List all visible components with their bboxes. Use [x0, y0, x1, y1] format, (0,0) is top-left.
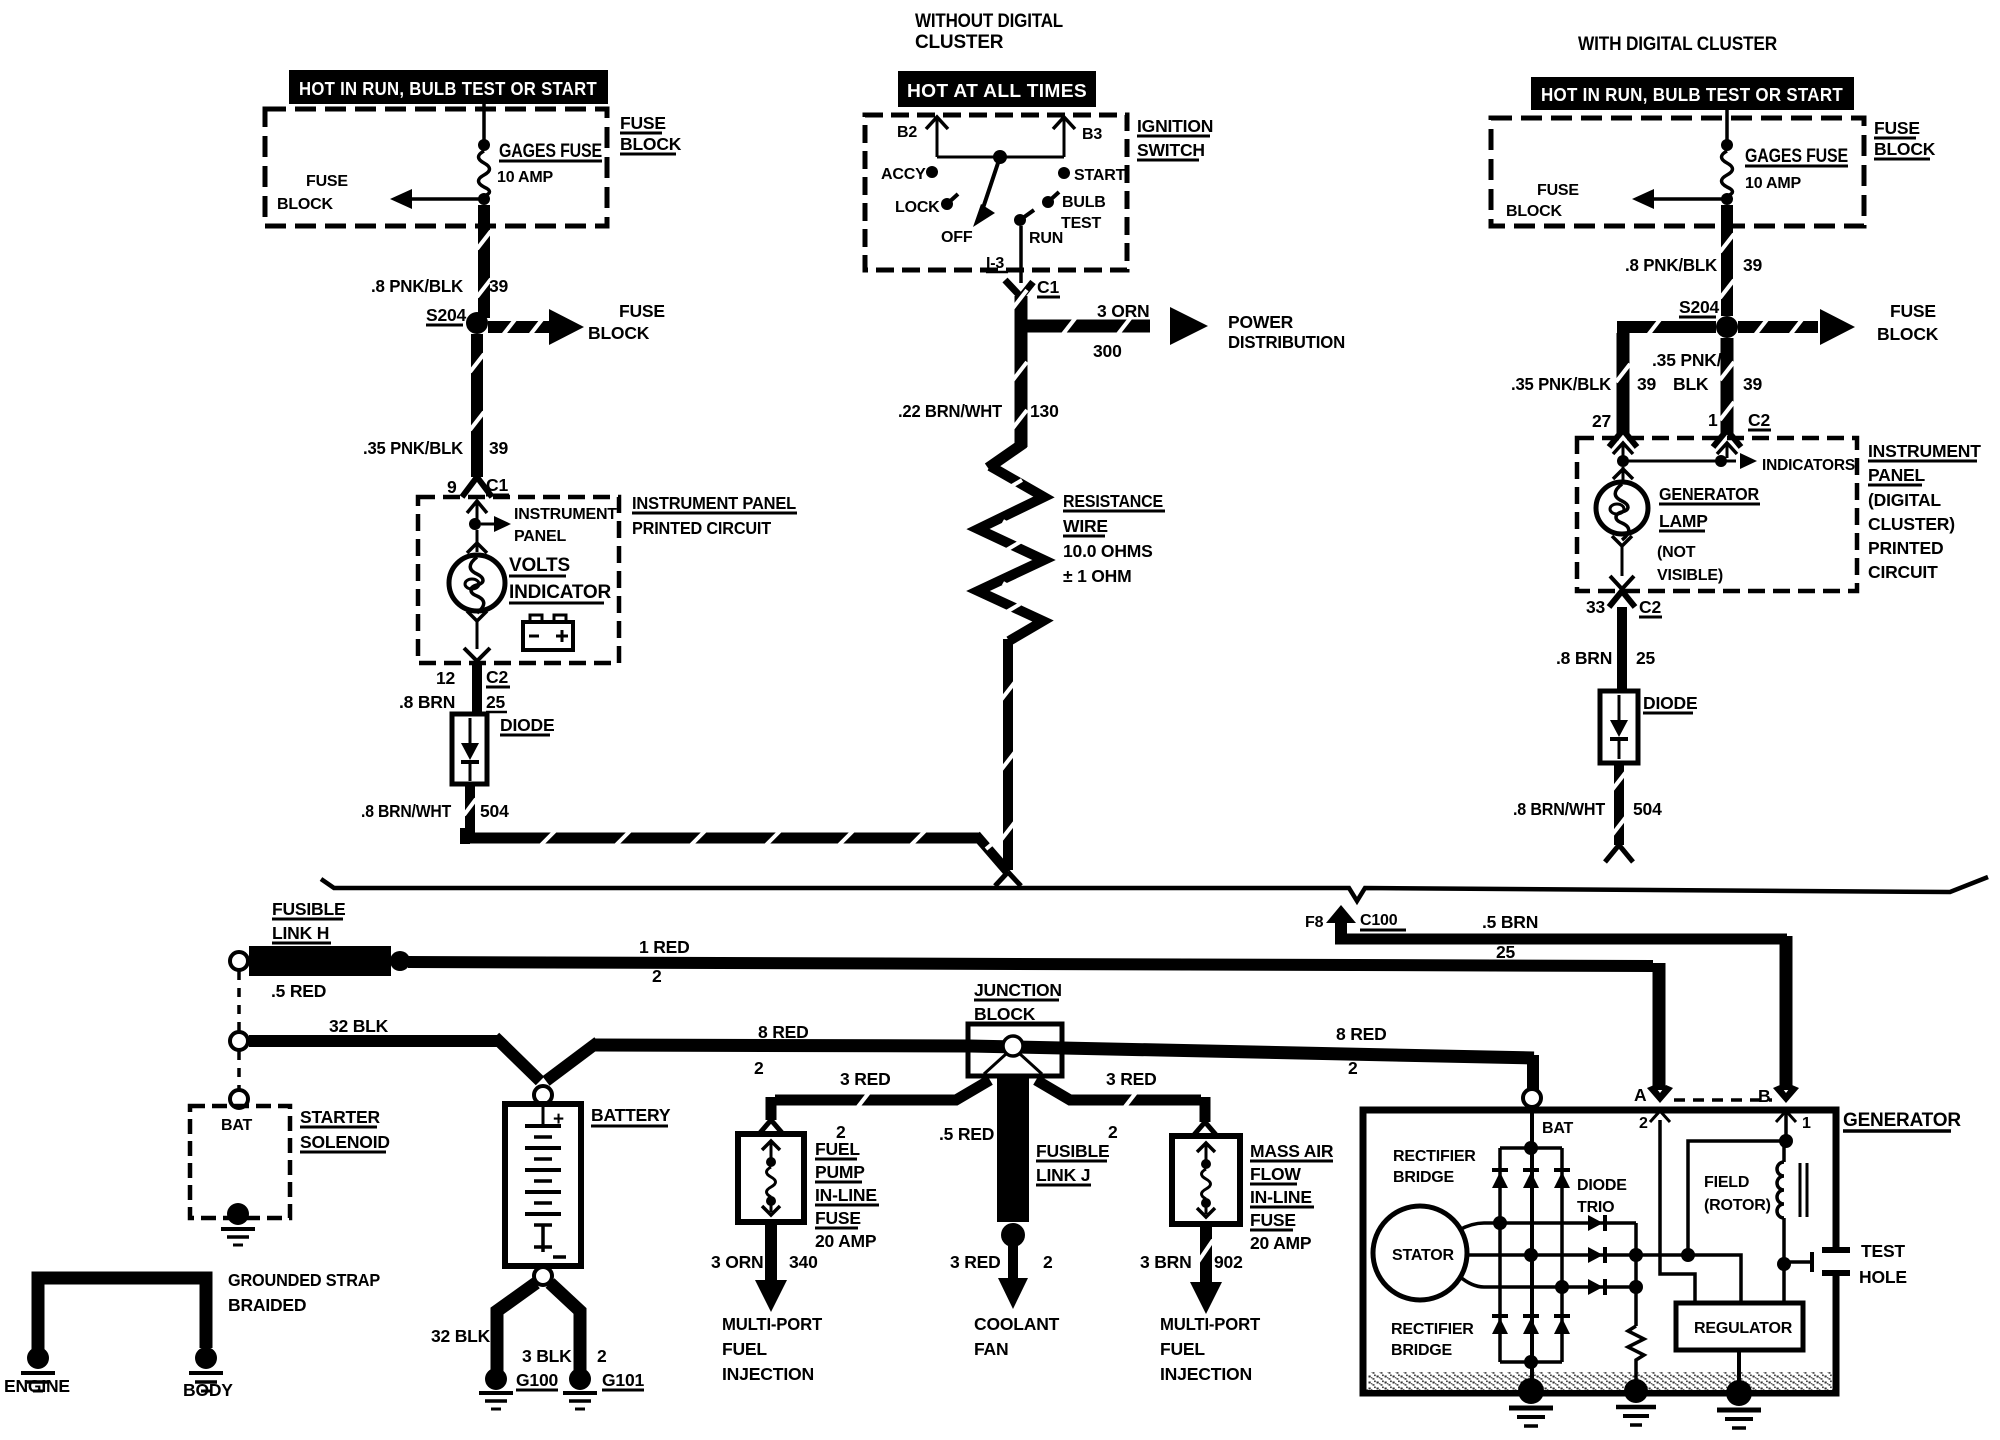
svg-text:BRIDGE: BRIDGE: [1393, 1169, 1455, 1186]
svg-text:C1: C1: [1037, 277, 1059, 297]
field (rotor) winding: [1777, 1145, 1784, 1260]
svg-text:LAMP: LAMP: [1659, 511, 1708, 531]
svg-text:BULB: BULB: [1062, 194, 1106, 211]
fuse block (left) dashed box: [265, 109, 607, 226]
svg-text:FIELD: FIELD: [1704, 1174, 1749, 1191]
svg-text:8 RED: 8 RED: [1336, 1024, 1387, 1044]
starter solenoid dashed box: [190, 1106, 290, 1218]
power label: HOT IN RUN, BULB TEST OR START (right): [1531, 77, 1854, 110]
svg-text:300: 300: [1093, 341, 1122, 361]
svg-text:INSTRUMENT: INSTRUMENT: [514, 506, 617, 523]
fuel pump fuse element: [762, 1141, 780, 1215]
label 3 RED 2 (coolant fan): [950, 1252, 1053, 1272]
wire RUN to C1: [1019, 226, 1023, 283]
svg-text:.8 BRN/WHT: .8 BRN/WHT: [1513, 799, 1605, 819]
wire into right fuse block: [1725, 110, 1729, 141]
label INSTRUMENT PANEL PRINTED CIRCUIT: [632, 493, 797, 538]
svg-text:INJECTION: INJECTION: [722, 1364, 814, 1384]
terminal B3 arrow: [1053, 117, 1102, 157]
svg-text:START: START: [1074, 167, 1126, 184]
label COOLANT FAN: [974, 1314, 1060, 1359]
label 3 ORN 340: [711, 1252, 818, 1272]
terminal ring fusible link H: [230, 952, 248, 970]
svg-text:3 RED: 3 RED: [950, 1252, 1001, 1272]
label 3 BRN 902: [1140, 1252, 1243, 1272]
svg-text:.5 RED: .5 RED: [271, 981, 326, 1001]
label RECTIFIER BRIDGE (bottom): [1391, 1321, 1474, 1359]
wire from header into fuse block: [482, 104, 486, 141]
svg-text:.8 PNK/BLK: .8 PNK/BLK: [371, 276, 464, 296]
svg-text:MULTI-PORT: MULTI-PORT: [1160, 1314, 1260, 1334]
svg-text:10.0 OHMS: 10.0 OHMS: [1063, 541, 1153, 561]
dashed lead to BAT stud: [237, 1051, 241, 1090]
svg-text:BLOCK: BLOCK: [1874, 139, 1936, 159]
svg-text:LINK J: LINK J: [1036, 1165, 1090, 1185]
label DIODE TRIO: [1577, 1177, 1627, 1216]
svg-text:39: 39: [489, 438, 509, 458]
strap dot body: [195, 1347, 217, 1369]
node dot trio/phase2: [1629, 1248, 1643, 1262]
contact START: [1058, 167, 1126, 184]
diode trio rail: [1634, 1223, 1638, 1326]
wire arrow to fuse block (from S204 left): [488, 309, 584, 345]
battery box: [505, 1104, 581, 1266]
svg-text:.22 BRN/WHT: .22 BRN/WHT: [898, 401, 1002, 421]
ground (BAT rail): [1509, 1408, 1553, 1426]
rectifier diode top-left: [1492, 1170, 1508, 1188]
wire .8 BRN 25 (right): [1617, 607, 1627, 691]
dashed lead to starter solenoid: [237, 971, 241, 1032]
node dot instrument panel feed: [469, 518, 481, 530]
dashed link A-B: [1674, 1098, 1772, 1102]
svg-text:HOT IN RUN, BULB TEST OR STAR: HOT IN RUN, BULB TEST OR START: [1541, 85, 1843, 105]
splice S204 (right): [1679, 297, 1738, 338]
label 1 RED 2: [639, 937, 690, 986]
svg-text:S204: S204: [1679, 297, 1720, 317]
label .35 PNK/ BLK 39: [1652, 350, 1763, 394]
switch common bar: [937, 156, 1064, 159]
label FUSE BLOCK (arrow target, right): [1877, 301, 1939, 344]
svg-text:OFF: OFF: [941, 229, 973, 246]
label DIODE (left): [500, 715, 554, 735]
svg-text:2: 2: [1348, 1058, 1358, 1078]
svg-text:39: 39: [1637, 374, 1657, 394]
svg-text:PANEL: PANEL: [514, 528, 566, 545]
ground dot (trio resistor): [1624, 1379, 1648, 1403]
svg-text:BODY: BODY: [183, 1380, 233, 1400]
svg-text:.35 PNK/: .35 PNK/: [1652, 350, 1722, 370]
svg-text:1 RED: 1 RED: [639, 937, 690, 957]
rectifier diode bottom-left: [1492, 1316, 1508, 1334]
diode (right): [1600, 691, 1638, 763]
label I-3: [986, 255, 1008, 272]
svg-text:25: 25: [486, 692, 506, 712]
svg-text:DIODE: DIODE: [1577, 1177, 1627, 1194]
label MULTI-PORT FUEL INJECTION (right): [1160, 1314, 1260, 1384]
svg-text:VOLTS: VOLTS: [509, 555, 570, 576]
gages fuse element (left): [479, 151, 490, 196]
splice S204 (left): [426, 305, 488, 334]
terminal B connector: [1758, 1085, 1811, 1132]
wire regulator to ground: [1737, 1350, 1741, 1385]
svg-text:INSTRUMENT: INSTRUMENT: [1868, 441, 1981, 461]
generator lamp: [1596, 467, 1648, 589]
svg-text:SOLENOID: SOLENOID: [300, 1132, 390, 1152]
svg-text:WITHOUT DIGITAL: WITHOUT DIGITAL: [915, 11, 1064, 32]
svg-text:S204: S204: [426, 305, 467, 325]
svg-text:FAN: FAN: [974, 1339, 1008, 1359]
ground (body): [189, 1373, 223, 1391]
starter solenoid ground dot: [227, 1203, 249, 1225]
node arrow into printed circuit (left): [467, 501, 487, 524]
label FUSE BLOCK (inside right fuse block): [1506, 182, 1579, 220]
diode trio diode 3: [1588, 1279, 1605, 1295]
svg-text:CLUSTER: CLUSTER: [915, 32, 1004, 53]
label OFF: [941, 229, 973, 246]
svg-text:B: B: [1758, 1086, 1770, 1106]
svg-text:FUEL: FUEL: [722, 1339, 767, 1359]
arrow to fuse block (inside, right): [1632, 189, 1727, 209]
generator box: [1363, 1110, 1836, 1393]
svg-text:JUNCTION: JUNCTION: [974, 980, 1062, 1000]
svg-text:3 ORN: 3 ORN: [711, 1252, 763, 1272]
diode (left): [452, 714, 487, 784]
svg-text:C2: C2: [1639, 597, 1661, 617]
svg-text:BRIDGE: BRIDGE: [1391, 1342, 1453, 1359]
svg-text:RECTIFIER: RECTIFIER: [1393, 1148, 1476, 1165]
wire resistance tail down: [1001, 639, 1015, 870]
svg-text:STARTER: STARTER: [300, 1107, 381, 1127]
svg-text:(DIGITAL: (DIGITAL: [1868, 490, 1941, 510]
wire below lamp with arrows: [464, 611, 490, 661]
indicators feed dots and arrow: [1617, 453, 1855, 474]
svg-text:FUEL: FUEL: [815, 1139, 860, 1159]
stator phase wire 3: [1459, 1276, 1636, 1287]
mass air flow in-line fuse box: [1172, 1136, 1240, 1224]
label WITH DIGITAL CLUSTER: [1578, 34, 1777, 55]
svg-text:BLOCK: BLOCK: [277, 196, 334, 213]
svg-text:(ROTOR): (ROTOR): [1704, 1197, 1771, 1214]
bus line (page link wire): [321, 877, 1988, 901]
contact ACCY: [881, 166, 938, 183]
ground (starter solenoid): [221, 1229, 255, 1245]
svg-text:32 BLK: 32 BLK: [329, 1016, 389, 1036]
svg-text:25: 25: [1636, 648, 1656, 668]
label GENERATOR LAMP (NOT VISIBLE): [1657, 484, 1760, 584]
wire 1 RED 2 to generator A: [408, 962, 1659, 1090]
svg-text:ENGINE: ENGINE: [4, 1376, 70, 1396]
svg-text:F8: F8: [1305, 914, 1324, 931]
svg-text:1: 1: [1708, 410, 1718, 430]
svg-text:BLOCK: BLOCK: [1506, 203, 1563, 220]
switch lever to OFF: [973, 157, 1000, 227]
wire 3 ORN 300 to power distribution: [1021, 307, 1208, 345]
ground G101: [563, 1393, 597, 1409]
label FUSIBLE LINK J: [1036, 1141, 1109, 1185]
wire 3 BLK 2 battery to G101: [550, 1283, 580, 1372]
label .8 BRN/WHT 504 (right): [1513, 799, 1662, 819]
wire 32 BLK battery to G100: [497, 1283, 536, 1372]
node dot above gages fuse: [478, 139, 490, 151]
node dot field bottom: [1777, 1257, 1791, 1271]
rectifier diode bottom-center: [1523, 1316, 1539, 1334]
svg-text:3 RED: 3 RED: [840, 1069, 891, 1089]
node dot phase3/right rail: [1555, 1280, 1569, 1294]
svg-text:39: 39: [489, 276, 509, 296]
node dot BAT top: [1524, 1141, 1538, 1155]
label FUSE BLOCK (inside left fuse block): [277, 173, 348, 213]
svg-text:8 RED: 8 RED: [758, 1022, 809, 1042]
svg-text:504: 504: [480, 801, 509, 821]
node dot field top: [1779, 1134, 1793, 1148]
connector fork to bus (right): [1605, 845, 1633, 862]
node dot BAT bottom: [1524, 1355, 1538, 1369]
wire field bottom to test hole contact: [1784, 1252, 1812, 1272]
svg-text:27: 27: [1592, 411, 1611, 431]
svg-text:3 BLK: 3 BLK: [522, 1346, 572, 1366]
junction block box: [968, 1024, 1062, 1076]
BAT rail: [1530, 1107, 1534, 1390]
wire .8 BRN/WHT 504 (right): [1612, 763, 1626, 845]
switch pivot node: [993, 150, 1007, 164]
svg-text:CLUSTER): CLUSTER): [1868, 514, 1955, 534]
resistance wire elbow: [988, 443, 1024, 468]
label JUNCTION BLOCK: [974, 980, 1062, 1024]
ground dot (regulator): [1726, 1380, 1752, 1406]
svg-text:FUSE: FUSE: [815, 1208, 861, 1228]
svg-text:.8 PNK/BLK: .8 PNK/BLK: [1625, 255, 1718, 275]
svg-text:.5 RED: .5 RED: [939, 1124, 994, 1144]
wire branch left from S204: [1616, 317, 1716, 434]
contact RUN: [1014, 210, 1063, 247]
terminal ring BAT stud: [230, 1090, 248, 1108]
svg-text:504: 504: [1633, 799, 1662, 819]
svg-text:GENERATOR: GENERATOR: [1843, 1110, 1961, 1131]
svg-text:DISTRIBUTION: DISTRIBUTION: [1228, 332, 1345, 352]
ground dot (BAT rail): [1518, 1378, 1544, 1404]
connector C1 pin 9 (left): [447, 475, 509, 497]
svg-text:FUSE: FUSE: [1890, 301, 1936, 321]
label 3 RED 2 (fuel pump): [836, 1069, 891, 1142]
fusible link H element: [249, 946, 391, 976]
label 3 RED 2 (mass air): [1106, 1069, 1157, 1142]
label IGNITION SWITCH: [1137, 116, 1213, 160]
wire .5 BRN 25 to generator B: [1335, 936, 1787, 1090]
svg-text:MASS AIR: MASS AIR: [1250, 1141, 1334, 1161]
fuse block (right) dashed box: [1491, 118, 1864, 226]
label 32 BLK (battery ground): [431, 1326, 491, 1346]
regulator box: [1676, 1303, 1803, 1350]
wire 3 RED 2 to mass air flow fuse: [1036, 1080, 1217, 1136]
label INSTRUMENT PANEL (internal): [514, 506, 617, 545]
svg-text:BLK: BLK: [1673, 374, 1709, 394]
wire 32 BLK to battery: [249, 1037, 540, 1081]
battery + terminal ring: [534, 1086, 552, 1104]
svg-text:GAGES FUSE: GAGES FUSE: [1745, 146, 1848, 167]
svg-text:FUSE: FUSE: [1537, 182, 1579, 199]
node dot phase1/left rail: [1493, 1216, 1507, 1230]
wire field bottom down to regulator: [1782, 1264, 1786, 1303]
label .35 PNK/BLK 39 (branch 27): [1511, 374, 1657, 394]
svg-text:3 RED: 3 RED: [1106, 1069, 1157, 1089]
wire 504 horizontal run to junction: [465, 828, 1008, 872]
svg-text:LINK H: LINK H: [272, 923, 329, 943]
svg-text:.8 BRN: .8 BRN: [399, 692, 455, 712]
svg-text:25: 25: [1496, 942, 1516, 962]
strap dot engine: [27, 1347, 49, 1369]
label 3 BLK 2: [522, 1346, 607, 1366]
ground (regulator): [1717, 1410, 1761, 1428]
svg-text:.35 PNK/BLK: .35 PNK/BLK: [1511, 374, 1612, 394]
svg-text:FUSE: FUSE: [619, 301, 665, 321]
svg-text:10 AMP: 10 AMP: [1745, 175, 1802, 192]
svg-text:INJECTION: INJECTION: [1160, 1364, 1252, 1384]
wire arrow to fuse block (from S204 right): [1738, 309, 1855, 345]
svg-text:BLOCK: BLOCK: [620, 134, 682, 154]
svg-text:± 1 OHM: ± 1 OHM: [1063, 566, 1132, 586]
svg-text:.5 BRN: .5 BRN: [1482, 912, 1538, 932]
wire .35 PNK/BLK 39 (left): [470, 334, 484, 477]
svg-text:B2: B2: [897, 124, 917, 141]
svg-text:PRINTED CIRCUIT: PRINTED CIRCUIT: [632, 518, 771, 538]
connector C2 pins 27 and 1: [1592, 410, 1771, 447]
svg-text:INSTRUMENT PANEL: INSTRUMENT PANEL: [632, 493, 796, 513]
svg-text:902: 902: [1214, 1252, 1243, 1272]
svg-text:FUEL: FUEL: [1160, 1339, 1205, 1359]
svg-text:FUSE: FUSE: [620, 113, 666, 133]
svg-text:GROUNDED STRAP: GROUNDED STRAP: [228, 1270, 380, 1290]
gages fuse element (right): [1722, 151, 1733, 196]
svg-text:FUSE: FUSE: [1250, 1210, 1296, 1230]
svg-text:WIRE: WIRE: [1063, 516, 1108, 536]
label .8 BRN/WHT 504: [361, 801, 509, 821]
label POWER DISTRIBUTION: [1228, 312, 1345, 352]
svg-text:TEST: TEST: [1861, 1241, 1905, 1261]
svg-text:39: 39: [1743, 255, 1763, 275]
node dot below gages fuse: [478, 193, 490, 205]
svg-text:COOLANT: COOLANT: [974, 1314, 1060, 1334]
svg-text:BAT: BAT: [1542, 1120, 1574, 1137]
label BAT: [1542, 1120, 1574, 1137]
rectifier bridge rails: [1500, 1148, 1562, 1362]
mass air flow fuse element: [1197, 1143, 1215, 1217]
svg-text:INDICATOR: INDICATOR: [509, 582, 611, 603]
label .35 PNK/BLK 39: [363, 438, 509, 458]
svg-text:LOCK: LOCK: [895, 199, 940, 216]
contact BULB TEST: [1042, 192, 1106, 232]
node dot below gages fuse (right): [1721, 193, 1733, 205]
svg-text:HOT IN RUN, BULB TEST OR START: HOT IN RUN, BULB TEST OR START: [299, 79, 597, 99]
svg-text:I-3: I-3: [986, 255, 1004, 272]
svg-text:C2: C2: [486, 667, 508, 687]
terminal B2 arrow: [897, 117, 948, 157]
wire A terminal to regulator: [1660, 1120, 1695, 1303]
svg-text:BLOCK: BLOCK: [974, 1004, 1036, 1024]
svg-text:FUSE: FUSE: [306, 173, 348, 190]
label MASS AIR FLOW IN-LINE FUSE 20 AMP: [1250, 1141, 1334, 1253]
terminal BAT ring: [1523, 1089, 1541, 1107]
svg-text:FUSIBLE: FUSIBLE: [272, 899, 345, 919]
svg-text:ACCY: ACCY: [881, 166, 926, 183]
svg-text:G101: G101: [602, 1370, 644, 1390]
svg-text:130: 130: [1030, 401, 1059, 421]
label .5 RED (fusible link J): [939, 1124, 994, 1144]
wire 3 RED 2 to fuel pump fuse: [759, 1080, 990, 1134]
svg-text:C100: C100: [1360, 912, 1398, 929]
ground G100: [479, 1393, 513, 1409]
junction fork onto bus line: [995, 872, 1021, 886]
resistance wire zigzag: [978, 466, 1044, 641]
splice dot fusible link H output: [390, 951, 410, 971]
label MULTI-PORT FUEL INJECTION (left): [722, 1314, 822, 1384]
terminal ring 32 BLK: [230, 1032, 248, 1050]
svg-text:STATOR: STATOR: [1392, 1247, 1455, 1264]
splice dot fusible link J output: [1001, 1223, 1025, 1247]
svg-text:HOLE: HOLE: [1859, 1267, 1907, 1287]
svg-text:IGNITION: IGNITION: [1137, 116, 1213, 136]
label RECTIFIER BRIDGE (top): [1393, 1148, 1476, 1186]
svg-text:BAT: BAT: [221, 1117, 253, 1134]
svg-text:HOT AT ALL TIMES: HOT AT ALL TIMES: [907, 81, 1087, 101]
label .8 BRN 25 (right): [1556, 648, 1656, 668]
svg-text:2: 2: [1639, 1115, 1648, 1132]
svg-text:2: 2: [1043, 1252, 1053, 1272]
wire 3 ORN 340 arrow: [755, 1222, 787, 1312]
svg-text:IN-LINE: IN-LINE: [1250, 1187, 1312, 1207]
field core lines: [1800, 1163, 1807, 1217]
ground (trio resistor): [1616, 1407, 1656, 1425]
battery symbol icon (in printed circuit): [523, 615, 573, 650]
svg-text:2: 2: [597, 1346, 607, 1366]
svg-text:FUSE: FUSE: [1874, 118, 1920, 138]
node dot trio/phase3: [1629, 1280, 1643, 1294]
ignition switch dashed box: [865, 115, 1127, 270]
label DIODE (right): [1643, 693, 1697, 713]
svg-text:MULTI-PORT: MULTI-PORT: [722, 1314, 822, 1334]
svg-text:GAGES FUSE: GAGES FUSE: [499, 141, 602, 162]
svg-text:RUN: RUN: [1029, 230, 1063, 247]
rectifier diode top-center: [1523, 1170, 1539, 1188]
resistor (trio to ground): [1628, 1326, 1644, 1382]
svg-text:B3: B3: [1082, 126, 1102, 143]
svg-text:IN-LINE: IN-LINE: [815, 1185, 877, 1205]
svg-text:TEST: TEST: [1061, 215, 1102, 232]
svg-text:INDICATORS: INDICATORS: [1762, 457, 1855, 474]
label FUSE BLOCK (right of left fuse block): [620, 113, 682, 154]
generator stipple shading: [1368, 1372, 1832, 1390]
label FUEL PUMP IN-LINE FUSE 20 AMP: [815, 1139, 879, 1251]
connector C1 (ignition): [1005, 277, 1060, 297]
label .8 PNK/BLK 39 (right): [1625, 255, 1763, 275]
svg-text:GENERATOR: GENERATOR: [1659, 484, 1760, 504]
svg-text:20 AMP: 20 AMP: [1250, 1233, 1312, 1253]
label STARTER SOLENOID: [300, 1107, 390, 1152]
label FUSIBLE LINK H: [272, 899, 345, 943]
battery - terminal ring: [534, 1267, 552, 1285]
svg-text:DIODE: DIODE: [500, 715, 554, 735]
ground dot G100: [485, 1368, 507, 1390]
power label: HOT AT ALL TIMES: [898, 71, 1096, 107]
wire field top to trio node: [1688, 1141, 1786, 1255]
svg-text:BLOCK: BLOCK: [588, 323, 650, 343]
label .5 BRN 25: [1482, 912, 1538, 962]
svg-text:G100: G100: [516, 1370, 558, 1390]
ground (engine): [21, 1373, 55, 1391]
instrument panel digital cluster dashed box: [1577, 438, 1857, 591]
wire 3 BRN 902 arrow: [1190, 1224, 1222, 1314]
svg-text:RECTIFIER: RECTIFIER: [1391, 1321, 1474, 1338]
label 8 RED 2 (left): [754, 1022, 809, 1078]
